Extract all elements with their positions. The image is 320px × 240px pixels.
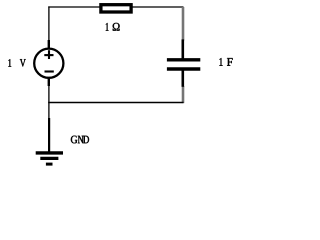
label GND bbox=[71, 136, 89, 144]
wire: top rail right segment bbox=[132, 6, 183, 8]
wire: top rail left segment bbox=[48, 6, 99, 8]
wire: bottom rail bbox=[48, 102, 183, 104]
junction: node joining source, bottom rail and ground lead bbox=[48, 102, 49, 103]
label 1 F bbox=[219, 58, 232, 66]
label 1 V bbox=[8, 59, 25, 66]
wire: right vertical from top rail down to capacitor bbox=[182, 7, 185, 41]
wire: source bottom down through junction to ground lead bbox=[48, 85, 50, 119]
voltage source bbox=[34, 40, 63, 86]
wire: capacitor bottom down to bottom rail bbox=[182, 86, 185, 103]
wire: left vertical from top rail down to source top bbox=[48, 6, 50, 41]
ground bbox=[36, 118, 63, 164]
capacitor bbox=[167, 39, 200, 86]
resistor bbox=[101, 5, 131, 12]
label 1 Ohm bbox=[106, 23, 120, 31]
